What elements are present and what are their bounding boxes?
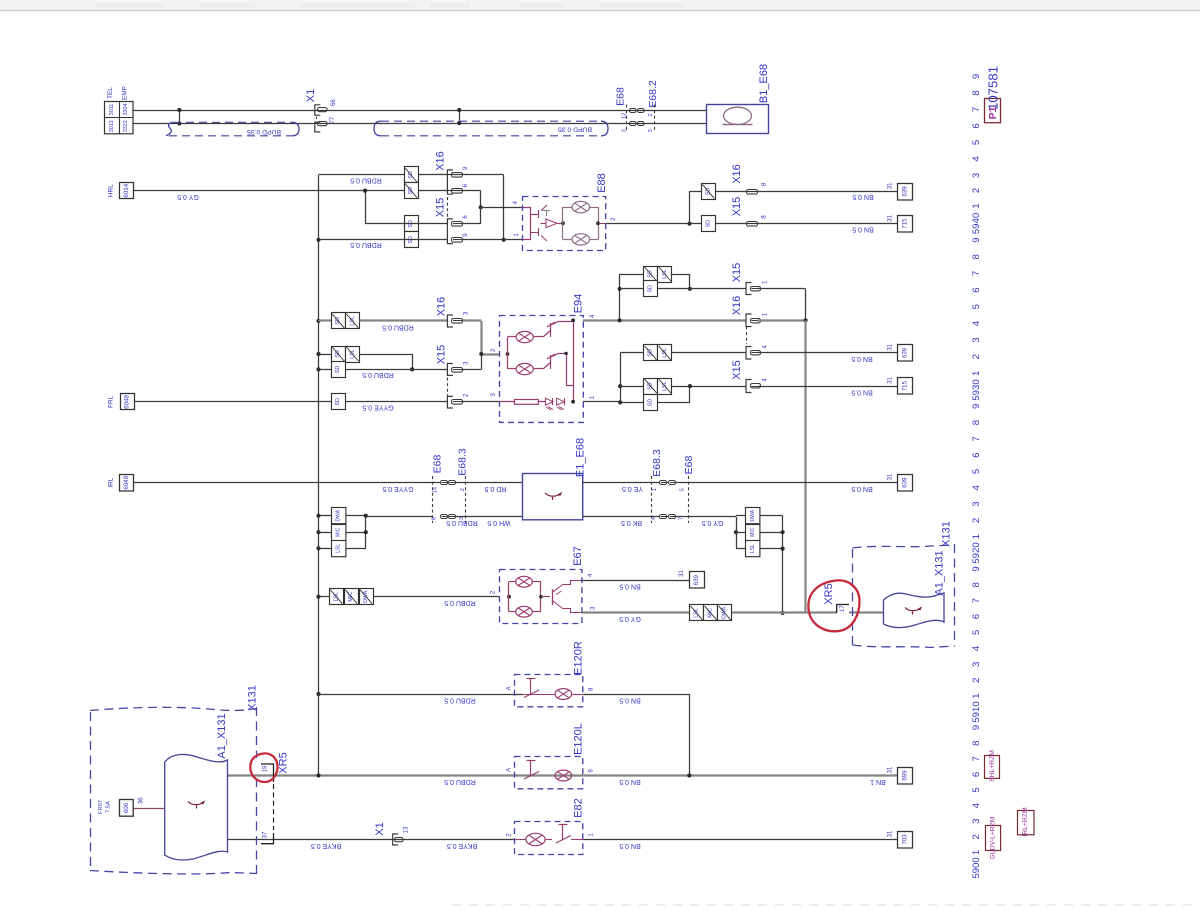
svg-text:XR5: XR5 xyxy=(277,752,289,773)
svg-text:5930: 5930 xyxy=(971,379,982,400)
svg-text:6: 6 xyxy=(971,614,982,619)
svg-text:8: 8 xyxy=(971,90,982,95)
svg-text:66: 66 xyxy=(331,99,337,106)
svg-text:1: 1 xyxy=(971,203,982,208)
svg-text:2: 2 xyxy=(971,834,982,839)
svg-text:7: 7 xyxy=(971,107,982,112)
svg-text:X15: X15 xyxy=(731,263,743,283)
svg-text:X16: X16 xyxy=(731,296,743,316)
svg-text:X15: X15 xyxy=(731,360,743,380)
svg-text:SD: SD xyxy=(648,399,654,407)
svg-text:X16: X16 xyxy=(435,151,447,171)
svg-text:37: 37 xyxy=(263,831,269,838)
svg-text:107581: 107581 xyxy=(986,66,1001,110)
svg-text:X16: X16 xyxy=(436,297,448,317)
svg-text:BUPD 0.35: BUPD 0.35 xyxy=(558,126,592,133)
svg-text:RDBU 0.5: RDBU 0.5 xyxy=(446,519,478,526)
svg-text:YE 0.5: YE 0.5 xyxy=(622,485,643,492)
svg-text:BUPD 0.35: BUPD 0.35 xyxy=(247,128,281,135)
svg-text:9: 9 xyxy=(971,74,982,79)
svg-text:4: 4 xyxy=(971,156,982,162)
svg-text:3304: 3304 xyxy=(123,104,129,116)
svg-text:RD 0.5: RD 0.5 xyxy=(485,485,507,492)
svg-text:X131: X131 xyxy=(941,521,953,547)
svg-text:3: 3 xyxy=(622,129,628,132)
svg-text:8: 8 xyxy=(971,741,982,746)
svg-text:1: 1 xyxy=(971,693,982,698)
svg-text:E68: E68 xyxy=(431,455,443,474)
svg-text:3: 3 xyxy=(971,819,982,824)
svg-text:X16: X16 xyxy=(731,164,743,184)
svg-text:7: 7 xyxy=(971,756,982,761)
svg-text:9: 9 xyxy=(971,725,982,730)
svg-text:7: 7 xyxy=(971,598,982,603)
svg-text:BN 0.5: BN 0.5 xyxy=(619,842,641,849)
svg-text:BN 0.5: BN 0.5 xyxy=(619,778,641,785)
svg-text:2: 2 xyxy=(460,488,466,491)
svg-text:6: 6 xyxy=(971,123,982,128)
svg-text:6014: 6014 xyxy=(123,183,130,197)
svg-text:E120R: E120R xyxy=(573,641,585,675)
svg-text:12: 12 xyxy=(622,113,628,119)
svg-text:5920: 5920 xyxy=(971,542,982,563)
svg-text:BN 0.5: BN 0.5 xyxy=(851,355,873,362)
svg-text:6: 6 xyxy=(971,772,982,777)
svg-text:6: 6 xyxy=(432,517,438,520)
svg-text:2: 2 xyxy=(971,354,982,359)
svg-text:6048: 6048 xyxy=(124,394,131,408)
svg-text:1: 1 xyxy=(971,534,982,539)
svg-text:XR5: XR5 xyxy=(823,583,835,604)
svg-text:BKYE 0.5: BKYE 0.5 xyxy=(447,842,477,849)
svg-text:77: 77 xyxy=(330,116,336,123)
svg-text:A: A xyxy=(506,768,512,772)
svg-text:P1: P1 xyxy=(987,106,999,119)
svg-text:A1_X131: A1_X131 xyxy=(934,550,946,595)
svg-text:4: 4 xyxy=(971,645,982,651)
svg-text:3322: 3322 xyxy=(123,120,129,132)
svg-text:SHL+RZM: SHL+RZM xyxy=(989,750,996,782)
svg-text:31: 31 xyxy=(888,473,894,480)
svg-text:RDBU 0.5: RDBU 0.5 xyxy=(444,599,476,606)
svg-text:MIC: MIC xyxy=(750,527,756,537)
svg-text:RDBU 0.5: RDBU 0.5 xyxy=(382,323,414,330)
svg-text:17: 17 xyxy=(840,605,846,612)
svg-text:BN 0.5: BN 0.5 xyxy=(619,696,641,703)
svg-text:BN 1: BN 1 xyxy=(870,778,886,785)
svg-text:13: 13 xyxy=(404,826,410,833)
svg-text:DWA: DWA xyxy=(335,509,341,521)
svg-text:5910: 5910 xyxy=(971,701,982,722)
svg-text:31: 31 xyxy=(888,376,894,383)
svg-text:BN 0.5: BN 0.5 xyxy=(851,388,873,395)
svg-text:4: 4 xyxy=(971,802,982,808)
svg-text:RDBU 0.5: RDBU 0.5 xyxy=(350,241,382,248)
svg-text:6: 6 xyxy=(971,453,982,458)
svg-text:E68.3: E68.3 xyxy=(456,448,468,476)
svg-text:E68: E68 xyxy=(615,87,627,106)
svg-text:RDBU 0.5: RDBU 0.5 xyxy=(362,371,394,378)
svg-text:6048: 6048 xyxy=(123,475,130,489)
svg-text:X15: X15 xyxy=(435,198,447,218)
svg-text:E1_E68: E1_E68 xyxy=(575,438,587,477)
svg-text:4: 4 xyxy=(971,320,982,326)
svg-text:5: 5 xyxy=(971,140,982,145)
svg-text:GY 0.5: GY 0.5 xyxy=(619,615,641,622)
svg-text:E67: E67 xyxy=(572,546,584,566)
svg-text:639: 639 xyxy=(902,347,909,358)
svg-text:X15: X15 xyxy=(436,345,448,365)
svg-text:9: 9 xyxy=(971,404,982,409)
svg-text:8: 8 xyxy=(971,420,982,425)
svg-text:7: 7 xyxy=(971,271,982,276)
svg-text:X131: X131 xyxy=(247,685,259,711)
svg-text:SD: SD xyxy=(705,220,711,228)
svg-text:19: 19 xyxy=(263,765,269,772)
svg-text:E82: E82 xyxy=(573,798,585,818)
svg-text:BKYE 0.5: BKYE 0.5 xyxy=(311,842,341,849)
svg-text:BK 0.5: BK 0.5 xyxy=(621,519,642,526)
svg-text:BN 0.5: BN 0.5 xyxy=(852,193,874,200)
svg-text:5: 5 xyxy=(971,469,982,474)
svg-text:A1_X131: A1_X131 xyxy=(216,713,228,758)
svg-text:31: 31 xyxy=(679,570,685,577)
svg-text:5: 5 xyxy=(971,630,982,635)
svg-text:4: 4 xyxy=(971,484,982,490)
svg-text:GY 0.5: GY 0.5 xyxy=(702,519,724,526)
svg-text:X1: X1 xyxy=(305,89,317,102)
svg-text:BN 0.5: BN 0.5 xyxy=(852,226,874,233)
svg-text:9: 9 xyxy=(971,237,982,242)
svg-text:7.5A: 7.5A xyxy=(106,801,112,813)
svg-text:GYYE 0.5: GYYE 0.5 xyxy=(362,404,393,411)
svg-text:E68.2: E68.2 xyxy=(647,80,659,108)
svg-text:1: 1 xyxy=(652,488,658,491)
svg-text:BN 0.5: BN 0.5 xyxy=(851,485,873,492)
svg-text:36: 36 xyxy=(139,797,145,804)
svg-text:715: 715 xyxy=(902,218,909,229)
svg-text:GYYE 0.5: GYYE 0.5 xyxy=(382,485,413,492)
svg-text:3: 3 xyxy=(648,129,654,132)
svg-text:3: 3 xyxy=(971,173,982,178)
svg-text:LSL: LSL xyxy=(335,544,341,553)
svg-text:E88: E88 xyxy=(596,173,608,193)
svg-text:5: 5 xyxy=(971,787,982,792)
svg-text:RDBU 0.5: RDBU 0.5 xyxy=(350,176,382,183)
svg-text:B1_E68: B1_E68 xyxy=(758,64,770,103)
svg-text:31: 31 xyxy=(888,830,894,837)
svg-text:RDBU 0.5: RDBU 0.5 xyxy=(444,778,476,785)
svg-text:3: 3 xyxy=(971,662,982,667)
svg-text:RDBU 0.5: RDBU 0.5 xyxy=(444,696,476,703)
svg-text:SD: SD xyxy=(648,285,654,293)
svg-text:5: 5 xyxy=(971,304,982,309)
svg-text:31: 31 xyxy=(888,182,894,189)
svg-text:2: 2 xyxy=(971,518,982,523)
svg-text:7: 7 xyxy=(971,436,982,441)
svg-text:5900: 5900 xyxy=(971,857,982,878)
svg-text:IRL: IRL xyxy=(108,477,115,487)
svg-text:9: 9 xyxy=(971,566,982,571)
svg-text:639: 639 xyxy=(902,186,909,197)
svg-text:FRL: FRL xyxy=(108,395,115,408)
svg-text:699: 699 xyxy=(902,770,909,781)
svg-text:3012: 3012 xyxy=(109,120,115,132)
svg-text:8: 8 xyxy=(971,254,982,259)
svg-text:E68: E68 xyxy=(683,456,695,475)
svg-text:2: 2 xyxy=(648,113,654,116)
svg-text:31: 31 xyxy=(888,214,894,221)
svg-text:E120L: E120L xyxy=(573,723,585,755)
svg-text:3: 3 xyxy=(971,501,982,506)
svg-text:X15: X15 xyxy=(731,197,743,217)
svg-text:A: A xyxy=(506,686,512,690)
svg-text:715: 715 xyxy=(902,380,909,391)
svg-text:WH 0.5: WH 0.5 xyxy=(487,519,510,526)
svg-text:IRL+RZM: IRL+RZM xyxy=(1022,807,1029,837)
svg-text:5: 5 xyxy=(679,488,685,491)
svg-text:639: 639 xyxy=(693,574,700,585)
svg-text:606: 606 xyxy=(123,802,130,813)
svg-text:1: 1 xyxy=(971,850,982,855)
svg-text:TEL: TEL xyxy=(107,87,114,99)
svg-text:FR07: FR07 xyxy=(98,800,104,814)
svg-text:DWA: DWA xyxy=(750,509,756,521)
svg-text:E68.3: E68.3 xyxy=(651,449,663,477)
svg-text:EMP: EMP xyxy=(121,86,128,100)
svg-text:31: 31 xyxy=(888,343,894,350)
svg-text:703: 703 xyxy=(902,834,909,845)
svg-text:4: 4 xyxy=(651,517,657,520)
svg-text:6: 6 xyxy=(971,287,982,292)
svg-text:3011: 3011 xyxy=(109,104,115,116)
svg-text:GLDV-L+RZM: GLDV-L+RZM xyxy=(990,816,997,859)
svg-text:SD: SD xyxy=(335,398,341,406)
svg-text:31: 31 xyxy=(888,766,894,773)
svg-text:LSL: LSL xyxy=(750,544,756,553)
svg-text:BN 0.5: BN 0.5 xyxy=(619,582,641,589)
svg-text:5940: 5940 xyxy=(971,213,982,234)
svg-text:8: 8 xyxy=(971,582,982,587)
svg-text:2: 2 xyxy=(971,188,982,193)
svg-text:14: 14 xyxy=(433,487,439,493)
svg-text:SD: SD xyxy=(335,366,341,374)
svg-text:3: 3 xyxy=(971,337,982,342)
svg-text:HRL: HRL xyxy=(108,184,115,197)
svg-text:1: 1 xyxy=(971,371,982,376)
svg-text:2: 2 xyxy=(971,678,982,683)
svg-text:MIC: MIC xyxy=(335,527,341,537)
svg-text:GY 0.5: GY 0.5 xyxy=(177,193,199,200)
svg-text:7: 7 xyxy=(678,517,684,520)
svg-text:X1: X1 xyxy=(374,822,386,835)
svg-text:E94: E94 xyxy=(573,294,585,314)
svg-text:639: 639 xyxy=(902,477,909,488)
